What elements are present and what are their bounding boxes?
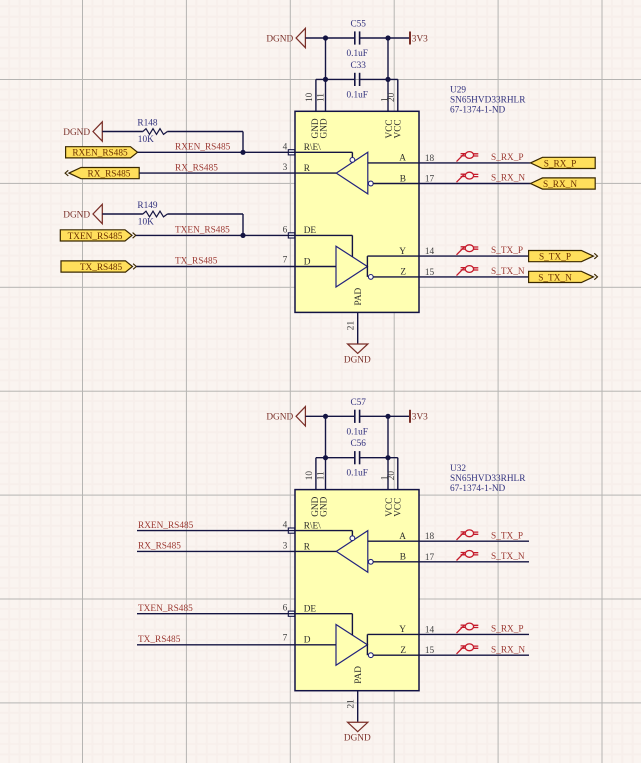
svg-text:S_RX_N: S_RX_N <box>543 180 577 190</box>
svg-text:DGND: DGND <box>266 413 293 423</box>
wire B net <box>373 561 529 563</box>
wire TX_RS485 <box>136 266 295 268</box>
ground DGND (pad) <box>344 344 371 365</box>
svg-text:0.1uF: 0.1uF <box>346 49 367 59</box>
svg-text:DGND: DGND <box>63 210 90 220</box>
svg-text:S_RX_P: S_RX_P <box>491 625 524 635</box>
junction <box>323 455 328 460</box>
pin 10 stub <box>315 79 317 111</box>
wire VCC drop <box>387 416 389 457</box>
port TX_RS485 <box>61 261 136 273</box>
pin 6 DE <box>283 604 317 617</box>
svg-text:11: 11 <box>316 471 326 480</box>
svg-text:RX_RS485: RX_RS485 <box>138 542 181 552</box>
wire R149 tap <box>240 214 245 238</box>
pin 1 stub <box>387 79 389 111</box>
svg-text:0.1uF: 0.1uF <box>346 427 367 437</box>
power port 3V3 <box>410 410 428 423</box>
svg-text:SN65HVD33RHLR: SN65HVD33RHLR <box>450 96 526 106</box>
svg-text:67-1374-1-ND: 67-1374-1-ND <box>450 484 506 494</box>
junction <box>385 414 390 419</box>
power port DGND (U29 decoupling) <box>266 28 305 47</box>
wire A net <box>368 540 529 542</box>
svg-text:DE: DE <box>304 604 317 614</box>
svg-text:0.1uF: 0.1uF <box>346 469 367 479</box>
wire Y net <box>367 633 529 635</box>
svg-text:DGND: DGND <box>63 128 90 138</box>
svg-text:S_RX_P: S_RX_P <box>491 153 524 163</box>
wire pin stub rail <box>316 457 398 459</box>
svg-text:SN65HVD33RHLR: SN65HVD33RHLR <box>450 474 526 484</box>
designator U29 <box>450 86 526 116</box>
driver amp of U32 <box>336 625 367 666</box>
svg-text:TXEN_RS485: TXEN_RS485 <box>175 226 230 236</box>
wire GND drop <box>325 416 327 457</box>
pin 7 D <box>283 634 336 646</box>
svg-text:11: 11 <box>316 93 326 102</box>
receiver amp of U29 <box>336 152 368 194</box>
resistor R148 <box>102 119 243 145</box>
svg-text:Y: Y <box>399 247 406 257</box>
wire TXEN_RS485 <box>137 613 295 615</box>
svg-text:67-1374-1-ND: 67-1374-1-ND <box>450 106 506 116</box>
svg-text:4: 4 <box>283 142 288 152</box>
receiver amp of U32 <box>336 531 368 573</box>
svg-text:20: 20 <box>387 92 397 102</box>
capacitor C56 <box>346 439 367 479</box>
svg-text:10K: 10K <box>138 217 154 227</box>
differential pair marker <box>457 530 479 540</box>
port RX_RS485 <box>65 168 139 180</box>
svg-text:3: 3 <box>283 541 288 551</box>
pin 3 R <box>283 541 337 552</box>
DE enable routing <box>295 614 352 635</box>
power port DGND (R148) <box>63 122 102 141</box>
svg-text:VCC: VCC <box>393 119 403 138</box>
pin 11 stub <box>325 79 327 111</box>
svg-text:21: 21 <box>346 699 356 709</box>
svg-text:S_RX_P: S_RX_P <box>544 159 577 169</box>
svg-text:0.1uF: 0.1uF <box>346 90 367 100</box>
differential pair marker <box>457 644 479 654</box>
pin 15 Z + bubble <box>367 267 434 280</box>
svg-text:RX_RS485: RX_RS485 <box>175 163 218 173</box>
wire Z net <box>373 276 528 278</box>
differential pair marker <box>457 551 479 561</box>
pin 18 A <box>399 532 434 542</box>
differential pair marker <box>457 245 479 255</box>
wire Y net <box>367 255 528 257</box>
svg-text:TXEN_RS485: TXEN_RS485 <box>138 604 193 614</box>
junction <box>385 77 390 82</box>
svg-text:7: 7 <box>283 634 288 644</box>
port S_TX_P <box>529 251 598 263</box>
pin 20 stub <box>397 458 399 490</box>
wire RX_RS485 <box>137 550 295 552</box>
wire power rail <box>305 415 410 417</box>
svg-text:S_TX_N: S_TX_N <box>538 273 572 283</box>
junction <box>385 455 390 460</box>
svg-text:TX_RS485: TX_RS485 <box>175 257 218 267</box>
junction <box>385 35 390 40</box>
svg-text:4: 4 <box>283 521 288 531</box>
wire TXEN_RS485 <box>136 234 295 236</box>
capacitor C55 <box>346 20 367 60</box>
pin 14 Y routing <box>367 247 434 267</box>
power port 3V3 <box>410 32 428 45</box>
port RXEN_RS485 <box>66 147 138 159</box>
pin 7 D <box>283 255 336 267</box>
power port DGND (R149) <box>63 204 102 223</box>
svg-text:DE: DE <box>304 226 317 236</box>
svg-text:PAD: PAD <box>354 666 364 684</box>
differential pair marker <box>457 266 479 276</box>
designator U32 <box>450 464 526 494</box>
port TXEN_RS485 <box>60 230 136 242</box>
wire R148 tap <box>240 132 245 155</box>
svg-text:R: R <box>304 164 311 174</box>
svg-text:C55: C55 <box>350 20 366 30</box>
wire GND drop <box>325 38 327 79</box>
port S_RX_N <box>531 178 596 190</box>
svg-text:10K: 10K <box>138 135 154 145</box>
wire RXEN_RS485 <box>137 530 295 532</box>
svg-text:R149: R149 <box>137 201 157 211</box>
svg-text:R148: R148 <box>137 119 157 129</box>
wire RX_RS485 <box>139 172 295 174</box>
svg-text:6: 6 <box>283 225 288 235</box>
ground DGND (pad) <box>344 722 371 743</box>
wire A net <box>368 162 531 164</box>
svg-text:GND: GND <box>320 118 330 138</box>
svg-text:S_RX_N: S_RX_N <box>491 174 525 184</box>
pin 4 R\E\ <box>283 142 322 155</box>
svg-text:10: 10 <box>305 92 315 102</box>
svg-text:20: 20 <box>387 471 397 481</box>
svg-text:D: D <box>304 257 311 267</box>
wire TX_RS485 <box>137 644 295 646</box>
pin 1 stub <box>387 458 389 490</box>
svg-text:DGND: DGND <box>344 355 371 365</box>
junction <box>323 35 328 40</box>
junction <box>323 77 328 82</box>
svg-text:6: 6 <box>283 604 288 614</box>
pin 15 Z + bubble <box>367 645 434 658</box>
differential pair marker <box>457 623 479 633</box>
svg-text:S_TX_P: S_TX_P <box>491 246 523 256</box>
pin 4 R\E\ <box>283 521 322 534</box>
IC U32 body <box>295 490 419 691</box>
differential pair marker <box>457 152 479 162</box>
svg-text:TXEN_RS485: TXEN_RS485 <box>68 232 123 242</box>
pin 11 stub <box>325 458 327 490</box>
pin 6 DE <box>283 225 317 238</box>
svg-text:U32: U32 <box>450 464 466 474</box>
svg-text:D: D <box>304 636 311 646</box>
svg-text:S_TX_P: S_TX_P <box>491 531 523 541</box>
pin 18 A <box>399 154 434 164</box>
svg-text:C57: C57 <box>350 398 366 408</box>
wire power rail <box>305 37 410 39</box>
pin 21 PAD <box>346 666 364 722</box>
svg-text:S_TX_N: S_TX_N <box>491 267 525 277</box>
port S_RX_P <box>531 157 596 169</box>
RE enable routing + bubble <box>295 152 355 162</box>
svg-text:R: R <box>304 542 311 552</box>
svg-text:TX_RS485: TX_RS485 <box>80 263 123 273</box>
svg-text:S_RX_N: S_RX_N <box>491 645 525 655</box>
svg-text:RXEN_RS485: RXEN_RS485 <box>138 521 194 531</box>
svg-text:S_TX_N: S_TX_N <box>491 552 525 562</box>
junction <box>323 414 328 419</box>
svg-text:C56: C56 <box>350 439 366 449</box>
pin 10 stub <box>315 458 317 490</box>
IC U29 body <box>295 111 419 312</box>
capacitor C33 <box>346 61 367 101</box>
svg-text:3V3: 3V3 <box>412 413 428 423</box>
svg-text:GND: GND <box>320 496 330 516</box>
svg-text:R\E\: R\E\ <box>304 521 321 531</box>
svg-text:7: 7 <box>283 255 288 265</box>
pin 21 PAD <box>346 287 364 343</box>
svg-text:R\E\: R\E\ <box>304 143 321 153</box>
svg-text:21: 21 <box>346 321 356 331</box>
svg-text:RXEN_RS485: RXEN_RS485 <box>72 149 128 159</box>
svg-text:C33: C33 <box>350 61 366 71</box>
wire B net <box>373 183 530 185</box>
svg-text:DGND: DGND <box>266 34 293 44</box>
power port DGND (U32 decoupling) <box>266 407 305 426</box>
pin 14 Y routing <box>367 625 434 645</box>
differential pair marker <box>457 172 479 182</box>
RE enable routing + bubble <box>295 531 355 541</box>
svg-text:PAD: PAD <box>354 287 364 305</box>
pin 3 R <box>283 163 337 174</box>
svg-text:U29: U29 <box>450 86 466 96</box>
driver amp of U29 <box>336 246 367 287</box>
port S_TX_N <box>529 271 598 283</box>
svg-text:S_TX_P: S_TX_P <box>539 253 571 263</box>
wire pin stub rail <box>316 78 398 80</box>
svg-text:RXEN_RS485: RXEN_RS485 <box>175 143 231 153</box>
svg-text:3V3: 3V3 <box>412 34 428 44</box>
wire RXEN_RS485 <box>138 151 296 153</box>
wire VCC drop <box>387 38 389 79</box>
resistor R149 <box>102 201 243 227</box>
wire Z net <box>373 654 529 656</box>
svg-text:10: 10 <box>305 471 315 481</box>
DE enable routing <box>295 235 352 256</box>
svg-text:3: 3 <box>283 163 288 173</box>
pin 20 stub <box>397 79 399 111</box>
svg-text:TX_RS485: TX_RS485 <box>138 635 181 645</box>
capacitor C57 <box>346 398 367 438</box>
pin 17 B + bubble <box>368 174 434 186</box>
svg-text:VCC: VCC <box>393 498 403 517</box>
svg-text:RX_RS485: RX_RS485 <box>88 170 131 180</box>
pin 17 B + bubble <box>368 553 434 565</box>
svg-text:DGND: DGND <box>344 734 371 744</box>
